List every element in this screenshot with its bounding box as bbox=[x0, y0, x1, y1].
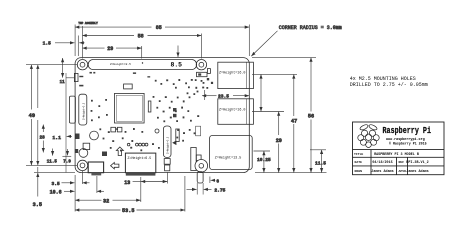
wifi module top right bbox=[207, 69, 210, 74]
svg-text:RPI-3B-V1_2: RPI-3B-V1_2 bbox=[406, 161, 428, 165]
svg-text:1.1: 1.1 bbox=[52, 135, 61, 141]
dim 32 bbox=[75, 198, 141, 204]
test pads circles bbox=[127, 143, 148, 146]
dim 56 bbox=[308, 58, 314, 173]
ext line hole BL left bbox=[26, 164, 77, 166]
SD card edge line bbox=[65, 73, 67, 172]
dim 11.5 right bbox=[315, 150, 326, 173]
svg-text:DATE: DATE bbox=[355, 160, 363, 164]
svg-text:04/18/2015: 04/18/2015 bbox=[372, 160, 392, 165]
dim 10.25 bbox=[257, 151, 271, 173]
svg-text:© Raspberry Pi 2015: © Raspberry Pi 2015 bbox=[389, 141, 427, 145]
svg-text:James Adams: James Adams bbox=[371, 169, 393, 174]
DSI connector bbox=[79, 94, 87, 125]
ext board top right bbox=[252, 57, 316, 59]
pin1 marker arrow bbox=[177, 46, 179, 58]
board outline bbox=[75, 58, 249, 173]
svg-text:Raspberry Pi: Raspberry Pi bbox=[383, 126, 432, 136]
svg-text:53.5: 53.5 bbox=[122, 208, 134, 214]
svg-text:11.5: 11.5 bbox=[315, 161, 326, 167]
mounting hole BR bbox=[196, 160, 206, 170]
ext line hole TR up bbox=[200, 34, 202, 59]
svg-text:23.5: 23.5 bbox=[218, 94, 229, 100]
svg-text:CORNER RADIUS = 3.0mm: CORNER RADIUS = 3.0mm bbox=[279, 25, 342, 31]
svg-text:11: 11 bbox=[60, 81, 66, 85]
svg-text:Z=Height=6.5: Z=Height=6.5 bbox=[128, 156, 152, 160]
insertion arrow glyph horizontal bbox=[111, 163, 119, 169]
svg-text:Z=Height=16.0: Z=Height=16.0 bbox=[219, 70, 245, 75]
SoC U1 bbox=[115, 93, 145, 123]
svg-text:Z=Height=16.0: Z=Height=16.0 bbox=[219, 108, 245, 113]
ext line pin1 1.5 bbox=[77, 36, 79, 57]
dim 1.1 bbox=[52, 135, 72, 141]
svg-text:James Adams: James Adams bbox=[406, 169, 428, 174]
mounting holes note bbox=[350, 76, 428, 88]
insertion arrow glyph vertical bbox=[116, 147, 123, 156]
dim 2.75 bbox=[187, 188, 226, 194]
ext camera center bbox=[167, 172, 169, 184]
ext eth center right bbox=[254, 150, 271, 152]
dim 13 bbox=[124, 180, 167, 186]
mounting hole BL bbox=[77, 160, 87, 170]
svg-text:2.75: 2.75 bbox=[214, 188, 225, 194]
svg-text:10.25: 10.25 bbox=[257, 157, 271, 163]
dim 1.5 bbox=[43, 41, 85, 47]
svg-text:8.5: 8.5 bbox=[171, 62, 183, 69]
electrolytic cap C6 bbox=[90, 131, 99, 140]
svg-text:DRILLED TO 2.75 +/- 0.05mm: DRILLED TO 2.75 +/- 0.05mm bbox=[350, 82, 428, 88]
svg-text:REF: REF bbox=[399, 160, 405, 164]
svg-text:7.9: 7.9 bbox=[63, 160, 71, 164]
svg-text:4x M2.5 MOUNTING HOLES: 4x M2.5 MOUNTING HOLES bbox=[350, 76, 416, 82]
corner radius leader bbox=[251, 25, 342, 56]
USB connector bottom (USB2) bbox=[218, 99, 254, 125]
dim usb spacing (no text) bbox=[260, 74, 262, 111]
dim 3.5 hole to bottom bbox=[33, 167, 75, 208]
svg-text:Z=Height=5.5: Z=Height=5.5 bbox=[83, 102, 86, 120]
dim 49 bbox=[29, 65, 35, 166]
dimension work bbox=[26, 22, 342, 214]
scattered passives texture bbox=[79, 72, 213, 152]
svg-text:RASPBERRY PI 3 MODEL B: RASPBERRY PI 3 MODEL B bbox=[374, 153, 419, 157]
svg-text:TITLE: TITLE bbox=[354, 152, 363, 156]
dark component left of cap bbox=[75, 149, 78, 153]
dim 11 bbox=[60, 58, 74, 85]
cap above BL hole bbox=[79, 149, 88, 158]
audio jack bbox=[191, 148, 208, 195]
title block texts bbox=[354, 152, 429, 174]
component square left-bottom bbox=[83, 143, 90, 149]
dim 53.5 bbox=[75, 208, 185, 214]
svg-text:32: 32 bbox=[103, 198, 109, 204]
dim 29 right bbox=[276, 112, 282, 173]
dim 85 bbox=[75, 25, 249, 31]
ext line 29 right bbox=[141, 46, 143, 59]
ext microusb center bbox=[96, 176, 98, 193]
ext line board left top bbox=[74, 25, 76, 57]
svg-text:6: 6 bbox=[216, 180, 219, 185]
dim 11.5 7.9 bbox=[47, 149, 72, 165]
ext usb2 center right bbox=[252, 111, 284, 113]
small circle component bbox=[155, 129, 159, 133]
svg-text:13: 13 bbox=[124, 180, 130, 186]
ext hdmi center bbox=[140, 177, 142, 202]
small component on left edge bbox=[74, 73, 78, 81]
ext line board right top bbox=[248, 25, 250, 57]
duplicate dim line left bbox=[37, 65, 39, 108]
svg-text:10.6: 10.6 bbox=[50, 189, 62, 195]
svg-text:1.5: 1.5 bbox=[43, 41, 52, 47]
GPIO header J8 bbox=[88, 60, 196, 70]
title block bbox=[353, 122, 445, 175]
svg-text:APVD: APVD bbox=[399, 169, 407, 173]
svg-text:3.5: 3.5 bbox=[52, 181, 61, 187]
svg-text:29: 29 bbox=[107, 46, 113, 52]
svg-text:DRWN: DRWN bbox=[355, 169, 363, 173]
svg-text:85: 85 bbox=[156, 25, 162, 31]
dim 47 bbox=[291, 74, 297, 172]
ext hole BL down bbox=[82, 171, 84, 184]
dim 3.5 bottom bbox=[52, 181, 90, 187]
ext board bottom right bbox=[255, 172, 327, 174]
component above SoC bbox=[124, 84, 133, 89]
dim 10.6 bbox=[50, 189, 104, 195]
camera CSI connector bbox=[163, 126, 171, 171]
dim 23.5 bbox=[202, 90, 249, 100]
component under header right bbox=[197, 72, 208, 76]
svg-text:Z=Height=5.5: Z=Height=5.5 bbox=[167, 136, 170, 154]
HDMI connector bbox=[125, 153, 155, 175]
ext line hole TL left bbox=[26, 64, 77, 66]
dim 28 bbox=[40, 125, 46, 153]
svg-text:28: 28 bbox=[40, 136, 46, 141]
svg-text:56: 56 bbox=[308, 114, 314, 120]
svg-text:TOP ASSEMBLY: TOP ASSEMBLY bbox=[78, 22, 98, 25]
dim 29 top bbox=[83, 46, 142, 52]
raspberry logo bbox=[358, 124, 379, 148]
svg-text:3.5: 3.5 bbox=[33, 202, 42, 208]
mounting hole TL bbox=[77, 59, 87, 69]
thin rect right of camera bbox=[176, 129, 179, 142]
ext 11.5 top bbox=[310, 149, 326, 151]
squares pair below SoC bbox=[111, 127, 116, 132]
svg-text:58: 58 bbox=[138, 33, 144, 39]
ext usb1 center right bbox=[252, 73, 297, 75]
camera insertion arrow bbox=[172, 141, 176, 146]
ext 53.5 right bbox=[184, 176, 186, 212]
dim 58 bbox=[83, 33, 202, 39]
micro USB power bbox=[88, 162, 103, 175]
mounting hole TR bbox=[196, 59, 206, 69]
ext line hole TL up bbox=[82, 26, 84, 59]
dim 6 audio bbox=[210, 177, 220, 185]
svg-text:47: 47 bbox=[291, 119, 297, 125]
svg-text:11.5: 11.5 bbox=[47, 160, 58, 164]
svg-text:49: 49 bbox=[29, 113, 35, 119]
component column right of SoC bbox=[148, 101, 151, 112]
SD card protruding left edge bbox=[69, 96, 75, 123]
ext board left down bbox=[74, 175, 76, 212]
svg-text:Z=Height=8.5: Z=Height=8.5 bbox=[110, 62, 131, 66]
Ethernet jack bbox=[210, 136, 253, 170]
svg-text:Z=Height=13.5: Z=Height=13.5 bbox=[215, 156, 241, 161]
USB connector top (USB1) bbox=[218, 62, 254, 88]
svg-text:29: 29 bbox=[276, 138, 282, 144]
